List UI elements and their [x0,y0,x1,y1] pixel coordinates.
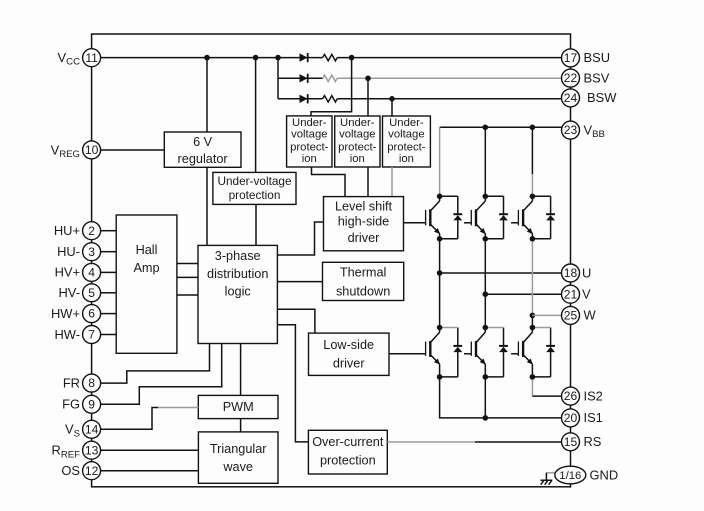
pin 24 (BSW) [562,89,618,107]
block: under-voltage protection (main) [213,172,296,204]
svg-text:BSV: BSV [584,70,610,85]
svg-text:25: 25 [564,309,578,323]
junction dot Q1 emitter [437,236,443,242]
svg-text:PWM: PWM [223,400,254,414]
pin 1/16 (GND) [555,466,618,484]
svg-text:23: 23 [564,123,578,137]
freewheel diode of Q2 [499,196,508,239]
junction dot (VBB rail / Q2) [483,125,489,131]
svg-text:OS: OS [61,463,80,478]
junction dot V tap [483,291,489,297]
pin 10 (VREG) [51,141,101,160]
block: under-voltage protection U (BSU) [287,116,332,167]
wire BSV bootstrap feed (vertical from VCC rail) [277,58,279,99]
svg-text:VBB: VBB [584,122,605,140]
svg-text:HU-: HU- [57,244,80,259]
svg-text:Over-current: Over-current [312,435,384,449]
svg-text:26: 26 [564,389,578,403]
svg-text:IS2: IS2 [584,388,603,403]
svg-text:14: 14 [85,422,99,436]
pin 15 (RS) [562,433,602,451]
svg-text:voltage: voltage [339,129,375,141]
wire UV box 3 output to level shift driver (gray) [391,167,393,197]
pin 21 (V) [562,285,592,303]
svg-text:logic: logic [225,285,252,299]
svg-text:7: 7 [88,328,95,342]
wire VBB drop to Q1 collector (gray) [439,127,441,193]
svg-text:Level shift: Level shift [335,200,393,214]
wire HV- pin 5 to Hall Amp [101,292,117,294]
wire VBB drop to Q2 collector [484,127,486,193]
svg-text:21: 21 [564,287,578,301]
IC package outline [92,34,571,487]
block: Hall Amp [116,215,177,353]
svg-text:20: 20 [564,411,578,425]
wire HV+ pin 4 to Hall Amp [101,271,117,273]
junction dot U tap [437,270,443,276]
transistor Q4 (U-phase low-side IGBT) [426,328,441,377]
junction dot Q3 collector [530,194,536,200]
junction dot (6 V regulator tap on VCC rail) [204,55,210,61]
block: Triangular wave [198,432,278,483]
pin 11 (VCC) [58,49,101,68]
pin 6 (HW+) [51,305,101,323]
svg-text:Amp: Amp [133,261,159,275]
wire HU- pin 3 to Hall Amp [101,251,117,253]
junction dot Q3 emitter [530,236,536,242]
svg-text:3-phase: 3-phase [215,249,261,263]
svg-text:Under-: Under- [292,117,327,129]
svg-text:17: 17 [564,51,578,65]
svg-text:11: 11 [85,51,98,65]
junction dot (VBB rail / Q3) [530,125,536,131]
pin 4 (HV+) [55,263,101,281]
wire V phase column [484,241,486,325]
wire VCC to 6 V regulator input [206,58,208,132]
svg-text:2: 2 [88,224,95,238]
diode D3 (BSW bootstrap) [300,94,308,103]
svg-text:8: 8 [88,376,95,390]
junction dot (BSV node to UV box 2) [365,76,371,82]
block: Level shift high-side driver [324,197,404,251]
wire BSV node to UV box 2 input [367,78,369,116]
svg-text:12: 12 [85,464,99,478]
svg-text:protect-: protect- [290,141,329,153]
svg-text:driver: driver [348,231,380,245]
svg-text:Under-voltage: Under-voltage [217,174,292,188]
wire UV box 1 output to level shift driver [312,167,346,197]
wire VBB rail to pin 23 [440,126,562,128]
wire VCC to under-voltage protection input [255,58,257,173]
svg-text:10: 10 [85,143,99,157]
svg-text:FR: FR [63,375,80,390]
wire low-side driver output to Q4 gate [389,353,425,355]
svg-text:VCC: VCC [58,50,81,68]
svg-text:shutdown: shutdown [336,285,390,299]
wire HU+ pin 2 to Hall Amp [101,230,117,232]
pin 14 (VS) [65,420,101,439]
wire logic to level shift driver input [277,222,323,255]
resistor R2 (BSV bootstrap, gray) [323,75,338,81]
wire logic to PWM [240,344,242,396]
diode D2 (BSV bootstrap) [300,74,308,83]
svg-text:Low-side: Low-side [323,338,374,352]
wire Q6 emitter drop to IS2 (gray) [531,380,533,397]
junction dot Q6 emitter [530,374,536,380]
svg-text:BSW: BSW [587,90,617,105]
svg-text:RS: RS [584,434,602,449]
block: Over-current protection [308,430,387,474]
pin 2 (HU+) [54,222,101,240]
svg-text:15: 15 [564,435,578,449]
wire logic to low-side driver input [277,309,315,333]
svg-text:1/16: 1/16 [559,470,581,482]
block: Low-side driver [309,333,390,375]
svg-text:4: 4 [88,266,95,280]
svg-text:FG: FG [62,397,80,412]
wire PWM to triangular wave [240,419,242,432]
junction dot Q1 collector [437,194,443,200]
junction dot Q2 emitter [483,236,489,242]
wire under-voltage protection output to 3-phase logic [255,204,257,245]
wire Hall Amp output 2 to logic [177,276,198,278]
svg-text:GND: GND [590,467,619,482]
pin 22 (BSV) [562,69,610,87]
svg-text:5: 5 [88,286,95,300]
svg-text:W: W [584,308,597,323]
wire Q1 collector loop [440,195,458,197]
svg-text:HU+: HU+ [54,223,80,238]
svg-text:9: 9 [88,397,95,411]
wire OS pin 12 to triangular wave [101,470,199,472]
svg-text:24: 24 [564,91,578,105]
wire BSV row to pin 22 (gray) [337,77,562,79]
wire VS pin 14 to PWM [101,408,158,430]
wire Q3 collector loop [532,195,550,197]
block: PWM [198,395,278,418]
freewheel diode of Q1 [453,196,462,239]
wire BSV row (left black part) [278,77,323,79]
svg-text:Thermal: Thermal [340,266,387,280]
pin 12 (OS) [61,462,100,480]
transistor Q6 (W-phase low-side IGBT) [518,328,533,377]
svg-text:IS1: IS1 [584,410,603,425]
wire BSW row to pin 24 [278,98,562,100]
svg-text:voltage: voltage [291,129,327,141]
junction dot Q5 emitter [483,374,489,380]
svg-text:HW-: HW- [54,327,80,342]
svg-text:22: 22 [564,71,578,85]
block: 6 V regulator U2 [164,132,241,167]
pin 20 (IS1) [562,409,603,427]
transistor Q3 (W-phase high-side IGBT) [518,196,533,239]
wire Q5 gate stub [464,353,471,355]
wire U phase column [439,241,441,325]
junction dot (BSU node to UV box 1) [349,55,355,61]
svg-text:protection: protection [229,188,281,202]
diode D1 (BSU bootstrap) [300,53,308,62]
wire 6 V regulator output to 3-phase logic [206,167,208,245]
svg-text:regulator: regulator [178,152,229,166]
svg-text:Under-: Under- [340,117,375,129]
wire W tap to pin 25 (gray) [532,314,562,316]
wire Q2 emitter loop [485,238,503,240]
svg-text:Under-: Under- [389,117,424,129]
pin 18 (U) [562,264,592,282]
pin 3 (HU-) [57,243,101,261]
wire VREG pin 10 to 6 V regulator [101,149,165,151]
wire W phase column (gray) [531,241,533,315]
junction dot (under-voltage protection tap on VCC rail) [253,55,259,61]
svg-text:protection: protection [320,453,376,467]
junction dot W tap [530,313,536,319]
svg-text:ion: ion [350,153,365,165]
pin 7 (HW-) [54,326,100,344]
wire Q4 emitter to IS1 pin 20 [440,380,562,418]
svg-text:ion: ion [302,153,317,165]
pin 23 (VBB) [562,121,605,140]
svg-text:3: 3 [88,245,95,259]
wire RREF pin 13 to triangular wave [101,449,199,451]
wire Hall Amp output 3 to logic [177,294,198,296]
wire W phase column lower part [531,315,533,325]
junction dot (bootstrap feed tap on VCC rail) [275,55,281,61]
svg-text:HV+: HV+ [55,265,80,280]
transistor Q2 (V-phase high-side IGBT) [471,196,486,239]
wire Q6 gate stub [511,353,518,355]
wire UV box 2 output to level shift driver [367,167,369,197]
svg-text:VS: VS [65,422,80,440]
wire BSU node to UV box 1 input [311,58,352,116]
svg-text:protect-: protect- [338,141,377,153]
wire Q5 emitter loop [485,376,503,378]
svg-text:13: 13 [85,443,99,457]
wire Q5 collector loop (gray) [485,327,503,329]
svg-text:U: U [582,265,591,280]
svg-text:voltage: voltage [388,129,424,141]
svg-text:driver: driver [333,356,365,370]
pin 8 (FR) [63,374,101,392]
junction dot Q4 emitter [437,374,443,380]
wire Q2 collector loop [485,195,503,197]
wire Q3 gate stub [511,222,518,224]
svg-text:Hall: Hall [136,243,158,257]
svg-text:V: V [582,287,591,302]
wire level shift driver output to Q1 gate [404,222,426,224]
svg-text:high-side: high-side [338,215,390,229]
svg-text:distribution: distribution [207,267,268,281]
wire FR pin 8 to logic [101,344,210,384]
svg-text:protect-: protect- [387,141,426,153]
block: under-voltage protection W (BSW) [383,116,431,167]
junction dot (BSW node to UV box 3) [389,96,395,102]
wire Q1 emitter loop [440,238,458,240]
wire Q5 emitter drop to IS1 [484,380,486,418]
junction dot Q2 collector [483,194,489,200]
wire U tap to pin 18 [440,272,562,274]
svg-text:6: 6 [88,307,95,321]
wire IS2 to pin 26 [532,395,561,397]
pin 9 (FG) [62,395,101,413]
junction dot Q6 collector [530,325,536,331]
svg-text:Triangular: Triangular [210,442,267,456]
wire Q6 emitter loop [532,376,550,378]
freewheel diode of Q5 [499,328,508,377]
junction dot Q5 emitter / IS1 [483,415,489,421]
wire RS to pin 15 [475,441,562,443]
resistor R1 (BSU bootstrap) [323,54,338,60]
wire VBB drop to Q3 collector lower part (gray) [531,174,533,194]
wire FG pin 9 to logic [101,344,222,405]
svg-text:ion: ion [399,153,414,165]
wire V tap to pin 21 [485,293,562,295]
wire Q4 collector loop (gray) [440,327,458,329]
wire HW+ pin 6 to Hall Amp [101,313,117,315]
wire Q3 emitter loop [532,238,550,240]
svg-text:RREF: RREF [52,443,81,461]
resistor R3 (BSW bootstrap) [323,96,338,102]
wire Q4 emitter loop [440,376,458,378]
pin 5 (HV-) [59,284,101,302]
wire over-current protection to RS pin 15 (gray part) [387,441,475,443]
freewheel diode of Q3 [546,196,555,239]
svg-text:18: 18 [564,266,578,280]
wire Hall Amp output 1 to logic [177,263,198,265]
wire Q6 collector loop (gray) [532,327,550,329]
transistor Q1 (U-phase high-side IGBT) [426,196,441,239]
wire BSW node to UV box 3 input [391,99,393,116]
block: Thermal shutdown [323,262,404,300]
junction dot Q4 collector [437,325,443,331]
wire logic to over-current protection [277,325,308,442]
wire logic to thermal shutdown [277,281,322,283]
pin 13 (RREF) [52,441,101,460]
block: under-voltage protection V (BSV) [335,116,380,167]
ground symbol [541,473,556,485]
pin 17 (BSU) [562,49,611,67]
svg-text:wave: wave [222,460,253,474]
wire Q2 gate stub [464,222,471,224]
freewheel diode of Q4 [453,328,462,377]
wire VCC rail from pin 11 to pin 17 (BSU) [101,57,562,59]
pin 26 (IS2) [562,387,603,405]
block: 3-phase distribution logic [198,245,277,343]
pin 25 (W) [562,306,597,324]
wire HW- pin 7 to Hall Amp [101,334,117,336]
svg-text:HV-: HV- [59,285,81,300]
svg-text:BSU: BSU [584,50,611,65]
svg-text:HW+: HW+ [51,306,80,321]
junction dot Q5 collector [483,325,489,331]
freewheel diode of Q6 [546,328,555,377]
svg-text:6 V: 6 V [193,135,213,149]
svg-text:VREG: VREG [51,142,80,160]
transistor Q5 (V-phase low-side IGBT) [471,328,486,377]
wire VS to PWM (gray segment) [158,407,198,409]
wire VBB drop to Q3 collector [531,127,533,174]
